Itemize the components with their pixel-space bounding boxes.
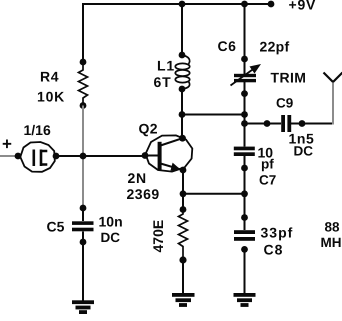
label C6 bbox=[218, 38, 237, 54]
label 88 bbox=[325, 220, 341, 235]
node C9 right lead bbox=[299, 120, 306, 127]
label + input bbox=[2, 135, 12, 154]
wire emitter down bbox=[182, 170, 184, 210]
capacitor C8 bbox=[234, 230, 255, 241]
label 33pf bbox=[261, 225, 294, 241]
crystal XTAL 1/16 body bbox=[20, 142, 55, 172]
svg-text:2N: 2N bbox=[128, 170, 147, 186]
label 22pf bbox=[260, 39, 290, 55]
node top rail junction at L1 bbox=[179, 1, 186, 8]
wire emitter junction horizontal bbox=[183, 193, 245, 195]
ground below 470E bbox=[172, 293, 195, 307]
transistor Q2 collector line bbox=[161, 138, 183, 145]
node 470E top bbox=[180, 206, 187, 213]
trimmer capacitor C6 bbox=[231, 59, 262, 94]
node junction emitter wire left bbox=[180, 190, 187, 197]
transistor Q2 body bbox=[146, 135, 193, 171]
wire crystal to transistor base bbox=[56, 155, 145, 157]
wire left drop from rail to R4 bbox=[82, 3, 84, 62]
wire C8 to ground bbox=[244, 249, 246, 293]
svg-text:88: 88 bbox=[325, 220, 341, 235]
svg-text:22pf: 22pf bbox=[260, 39, 290, 55]
wire top supply rail bbox=[83, 3, 271, 5]
resistor R4 bbox=[79, 62, 88, 106]
wire rail to L1 bbox=[181, 4, 183, 55]
node L1 bottom bbox=[179, 86, 186, 93]
wire C6 to junctions bbox=[244, 94, 246, 147]
label Q2 bbox=[139, 121, 158, 137]
svg-text:+9V: +9V bbox=[289, 0, 317, 13]
node C9 left lead bbox=[264, 120, 271, 127]
label R4 bbox=[40, 69, 59, 85]
wire collector junction to C6 line bbox=[182, 114, 245, 116]
label 6T bbox=[154, 74, 172, 90]
svg-text:MHz: MHz bbox=[321, 235, 342, 250]
svg-text:+: + bbox=[2, 135, 12, 154]
wire antenna feed bbox=[332, 81, 334, 125]
svg-text:Q2: Q2 bbox=[139, 121, 158, 137]
label +9V bbox=[289, 0, 317, 13]
node junction collector/trim wire bbox=[179, 111, 186, 118]
wire rail to trimmer C6 bbox=[244, 3, 246, 59]
node R4 bottom bbox=[80, 102, 87, 109]
wire grey vertical R4 to C5 bbox=[82, 106, 84, 209]
node junction to C9 bbox=[241, 120, 248, 127]
svg-text:6T: 6T bbox=[154, 74, 172, 90]
resistor 470E bbox=[179, 210, 188, 259]
node junction crystal/R4/C5 bbox=[80, 153, 87, 160]
label 10K bbox=[37, 89, 65, 105]
node crystal left bbox=[15, 153, 22, 160]
node junction to collector wire bbox=[241, 111, 248, 118]
node top rail junction at C6 bbox=[241, 1, 248, 8]
ground below C5 bbox=[72, 300, 94, 314]
label 1/16 bbox=[24, 122, 51, 138]
node C8 top bbox=[241, 214, 248, 221]
svg-text:C5: C5 bbox=[47, 219, 65, 235]
label C9 bbox=[276, 96, 293, 111]
label C5 bbox=[47, 219, 65, 235]
label pf (C7) bbox=[261, 157, 274, 172]
svg-text:TRIM: TRIM bbox=[271, 70, 307, 86]
svg-text:C7: C7 bbox=[259, 173, 276, 188]
node C8 bottom bbox=[241, 246, 248, 253]
label 10n bbox=[99, 213, 123, 229]
node C6 top bbox=[241, 56, 248, 63]
node C5 top bbox=[80, 205, 87, 212]
capacitor C5 bbox=[72, 208, 94, 242]
label 2369 bbox=[127, 186, 160, 202]
node L1 top bbox=[179, 52, 186, 59]
node crystal right bbox=[53, 153, 60, 160]
node junction emitter wire right bbox=[241, 190, 248, 197]
label DC (C9) bbox=[294, 144, 314, 159]
transistor Q2 emitter line with arrow bbox=[161, 163, 183, 171]
node top rail end dot (+9V) bbox=[268, 1, 275, 8]
node base wire dot bbox=[142, 152, 149, 159]
label 1n5 bbox=[289, 131, 315, 147]
node C5 bottom bbox=[80, 239, 87, 246]
antenna bbox=[324, 73, 342, 83]
node emitter bbox=[180, 167, 187, 174]
node C6 bottom bbox=[241, 90, 248, 97]
svg-text:R4: R4 bbox=[40, 69, 59, 85]
label L1 bbox=[157, 58, 175, 74]
label C7 bbox=[259, 173, 276, 188]
svg-text:2369: 2369 bbox=[127, 186, 160, 202]
wire C5 to ground bbox=[82, 242, 84, 301]
capacitor C9 bbox=[281, 115, 291, 132]
svg-text:10n: 10n bbox=[99, 213, 123, 229]
wire L1 to collector bbox=[181, 89, 183, 138]
svg-text:C8: C8 bbox=[264, 242, 284, 258]
label DC (C5) bbox=[101, 230, 121, 245]
node C7 bottom bbox=[241, 165, 248, 172]
node R4 top bbox=[80, 59, 87, 66]
wire C9 right bbox=[291, 123, 333, 125]
label 10 (C7) bbox=[258, 145, 274, 161]
wire grey left input to crystal bbox=[0, 155, 18, 157]
ground below C8 bbox=[234, 293, 256, 307]
svg-text:pf: pf bbox=[261, 157, 274, 172]
label C8 bbox=[264, 242, 284, 258]
svg-text:C9: C9 bbox=[276, 96, 293, 111]
label 2N bbox=[128, 170, 147, 186]
label TRIM bbox=[271, 70, 307, 86]
wire 470E to ground bbox=[182, 259, 184, 294]
svg-text:DC: DC bbox=[294, 144, 314, 159]
svg-text:33pf: 33pf bbox=[261, 225, 294, 241]
wire base dot to bar bbox=[145, 155, 158, 157]
transistor Q2 base bar bbox=[158, 142, 162, 170]
wire to C9 bbox=[245, 123, 282, 125]
svg-text:L1: L1 bbox=[157, 58, 175, 74]
label MHz clipped bbox=[321, 235, 342, 250]
inductor L1 coil bbox=[175, 55, 189, 89]
capacitor C7 bbox=[234, 147, 255, 168]
svg-text:DC: DC bbox=[101, 230, 121, 245]
label 470E rotated bbox=[150, 220, 166, 253]
svg-text:1/16: 1/16 bbox=[24, 122, 51, 138]
wire C7 to C8 bbox=[244, 168, 246, 230]
svg-text:470E: 470E bbox=[150, 220, 166, 253]
node collector bbox=[179, 135, 186, 142]
svg-text:C6: C6 bbox=[218, 38, 237, 54]
node 470E bottom bbox=[179, 256, 186, 263]
svg-text:10K: 10K bbox=[37, 89, 65, 105]
